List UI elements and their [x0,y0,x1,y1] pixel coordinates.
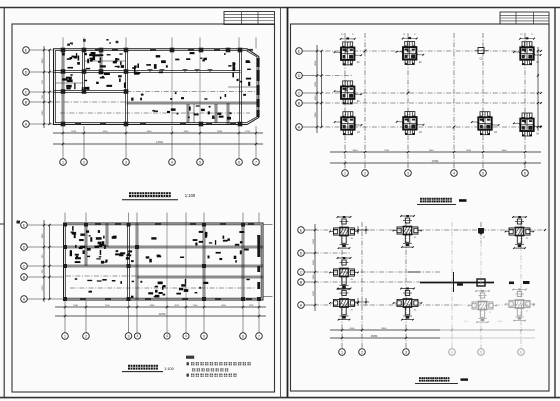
plan2 corridor dash-dot y288 [70,287,255,289]
plan3 column KZ4 at 1-C [343,81,353,87]
svg-text:2: 2 [85,334,87,338]
plan3 column KZ8 at 6-A [522,113,532,119]
plan4 bay dimension row gray part [440,329,535,331]
plan1 room annotation marks lower band [71,74,73,76]
plan2 interior wall C line y266 [64,264,264,266]
plan3 title underline [417,204,456,206]
plan4 small pier at 5-E [478,228,484,235]
plan3 bottom grid bubble 5 [480,170,487,177]
plan3 title scale dash [459,199,467,202]
svg-text:2540: 2540 [466,150,472,152]
svg-text:5: 5 [199,160,201,164]
plan1 annotation marks mid-strip [170,98,172,100]
plan4 vertical axis 4 (gray) [451,222,453,349]
plan3 bay dimension row [330,151,541,153]
svg-text:5: 5 [203,334,205,338]
svg-text:2: 2 [364,171,366,175]
plan3 column KZ3 at 6-E [522,42,532,48]
svg-text:C: C [300,270,303,274]
svg-text:4: 4 [166,334,168,338]
plan4 bottom grid bubble 6 (gray) [518,349,525,356]
plan1 stair marks [98,54,103,56]
plan3 right vertical dimension line [537,47,539,131]
plan1 grid bubble D [23,69,30,76]
plan4 bottom grid bubble 3 [403,349,410,356]
plan4 left vertical dimension line [314,224,316,311]
plan1 number axis stubs above plan [62,38,64,49]
plan3 B axis dash-dot line [316,102,541,104]
plan2 B wall y277 right part [137,275,263,277]
plan1 annotation marks bottom strip rooms [208,111,210,114]
svg-text:3040: 3040 [353,150,359,152]
plan4 axis4 solid segment at B [453,272,455,292]
plan1 bay dimension row [53,132,263,134]
plan2 interior wall axis5 x204 [202,223,204,300]
svg-text:D: D [23,245,26,249]
plan4 B axis strip foundation thick line [420,282,494,284]
left sheet right outer border [280,8,282,398]
plan2 bottom grid bubble 7 [256,333,263,340]
plan3 bottom grid bubble 6 [522,170,529,177]
plan1 bottom grid bubble 3 [123,159,130,166]
plan1 interior wall x101 [99,50,101,72]
plan4 bay dimension row dark part [330,329,440,331]
plan2 room annotation marks upper-left block [97,245,102,247]
plan1 toilet wall x216 [214,104,216,123]
plan2 outline wall [64,223,264,300]
plan3 column KZ5 at 1-A [343,112,353,118]
plan1 B wall right part y103 [127,101,258,103]
plan4 A axis dash-dot line gray part [458,304,534,306]
plan1 outline outer wall [54,49,259,125]
plan2 bottom grid bubble 1/4 [134,333,140,339]
svg-text:2600: 2600 [315,81,317,87]
svg-text:6540: 6540 [350,328,356,330]
plan2 annotation marks mid-left strip [126,257,130,260]
plan4 grid bubble B [298,279,305,286]
plan2 bottom grid bubble 3 [125,333,132,340]
svg-text:6: 6 [524,171,526,175]
plan1 grid bubble A [23,121,30,128]
plan4 vertical axis 2 [361,222,363,349]
svg-text:D: D [298,74,301,78]
right sheet left border (thick) [287,8,289,398]
plan3 grid bubble E [296,48,303,55]
svg-text:C: C [23,264,26,268]
notes line 1 [187,362,189,365]
svg-text:4: 4 [171,160,173,164]
plan2 grid bubble A [21,296,28,303]
plan3 vertical axis dash-dot lines [344,33,346,170]
plan1 toilet wall x194 [193,104,195,123]
plan4 D axis dash-dot line [314,252,350,254]
plan4 E axis dash-dot line [314,229,545,231]
plan3 column KZ7 at 5-A [480,112,490,118]
plan2 title text [128,365,132,370]
plan2 grid bubble D [21,244,28,251]
plan2 interior wall axis2 x86 [84,223,86,266]
plan2 bottom grid bubble 2 [83,333,90,340]
svg-text:5: 5 [482,171,484,175]
plan1 annotation marks top band east [186,58,190,60]
plan4 vertical axis 6 [520,222,522,246]
plan1 axis 4 line inside plan [171,48,173,125]
plan1 B axis dash-dot corridor line [55,101,127,103]
plan3 left vertical dimension line [316,45,318,133]
svg-text:1000: 1000 [313,274,315,280]
svg-text:1800: 1800 [42,58,44,64]
plan1 annotation marks right rooms [240,81,242,83]
plan2 interior wall D line y247 [64,245,264,247]
plan4 A axis dash-dot line dark part [314,304,458,306]
svg-text:D: D [300,251,303,255]
plan1 interior wall axis6 x240.5 [239,50,241,124]
svg-text:7050: 7050 [384,150,390,152]
plan2 window marks top wall [95,223,101,225]
plan1 window marks top wall [95,49,101,51]
plan3 C axis dash-dot line [316,92,541,94]
svg-text:14700: 14700 [159,313,166,316]
plan3 bottom grid bubble 4 [451,170,458,177]
plan1 tiny dim marks above plan [72,42,73,45]
plan4 E axis right end tick [544,229,546,231]
plan2 window marks bottom wall [80,298,86,300]
plan3 column KZ2 at 3-E [405,42,415,48]
sheet outer frame right line [554,8,556,398]
plan2 annotation marks bottom strip [132,281,134,283]
svg-text:3: 3 [125,160,127,164]
svg-text:1: 1 [64,334,66,338]
plan4 title scale dash [461,378,469,380]
svg-text:D: D [25,70,28,74]
plan4 footing at 5-A (gray) [476,290,489,292]
plan4 grid bubble C [298,269,305,276]
plan2 title underline [122,371,163,373]
plan2 bottom grid bubble 2/4 [183,333,189,339]
left sheet inner border [12,24,275,392]
svg-text:2548: 2548 [71,131,77,133]
plan2 bottom grid bubble 1/4b [164,333,170,339]
plan2 A line extension to border [263,296,273,298]
svg-text:C: C [25,90,28,94]
sheet outer frame bottom line [0,397,560,399]
svg-text:8900: 8900 [382,328,388,330]
plan1 C axis dash-dot line [127,91,258,93]
svg-text:3044: 3044 [502,150,508,152]
svg-text:3540: 3540 [315,112,317,118]
plan1 overall dimension row [53,143,263,145]
svg-text:1:100: 1:100 [185,193,196,198]
plan2 bottom grid bubble 5 [201,333,208,340]
svg-text:1: 1 [344,171,346,175]
plan4 footing at 1-A [338,288,351,290]
plan3 grid bubble A [296,124,303,131]
plan2 right edge wall dark blobs [257,235,260,257]
plan2 interior wall x107 [105,223,107,247]
plan2 interior wall axis6 x243 [241,223,243,300]
plan4 C axis dash-dot line [314,271,440,273]
plan3 bottom grid bubble 1 [342,170,349,177]
svg-text:1800: 1800 [42,233,44,239]
plan3 column KZ1 at 1-E [343,42,353,48]
plan1 bottom grid bubble 7 [253,159,260,166]
plan1 title text [129,192,134,197]
svg-text:7: 7 [255,160,257,164]
plan3 grid bubble C [296,90,303,97]
plan2 number axis lines below plan [64,301,66,333]
plan4 tick group at 2-A [357,298,359,306]
plan4 grid bubble D [298,250,305,257]
plan2 bottom grid bubble 6 [240,333,247,340]
plan3 grid bubble D [296,72,303,79]
plan1 annotation marks mid area [134,68,136,73]
sheet outer frame left line [3,8,5,398]
plan3 column KZ6 at 3-A [405,112,415,118]
plan2 axis lines inside plan [166,223,168,300]
svg-text:6: 6 [520,350,522,354]
plan4 footing at 6-A (gray) [513,289,526,291]
plan3 D axis dash-dot line [316,75,352,77]
plan4 vertical axis 3 [405,222,407,349]
plan4 grid bubble A [298,302,305,309]
plan4 overall dimension row [330,337,440,339]
plan1 right edge wall dark blobs [256,58,259,67]
plan2 B axis dash-dot corridor [66,275,137,277]
plan4 title underline [415,382,458,384]
plan1 number axis lines below plan [62,126,64,159]
plan4 title text [419,377,423,381]
svg-text:2100: 2100 [42,110,44,116]
plan3 letter axis leader lines [302,50,316,52]
plan4 B axis dash-dot line [314,281,420,283]
svg-text:2300: 2300 [313,238,315,244]
plan2 grid bubble E [21,222,28,229]
plan4 bottom grid bubble 4 (gray) [449,349,456,356]
plan1 axis 5 line inside plan [199,48,201,125]
plan4 footing at 3-E [401,215,414,217]
plan1 interior wall C line y91.5 [54,90,127,92]
plan1 outline inner wall [55,51,257,123]
plan1 grid bubble E [23,47,30,54]
plan2 annotation marks mid strip [244,249,249,251]
plan1 room wall x228 [226,103,228,124]
svg-text:2100: 2100 [42,285,44,291]
plan1 partition y61 [84,60,126,62]
notes line 2 [192,368,195,371]
plan2 interior wall x137 [135,223,137,300]
plan1 grid bubble C [23,89,30,96]
plan3 tick mark at 3-C [407,92,410,95]
plan4 grid bubble E [298,227,305,234]
plan4 vertical axis 1 [341,222,343,349]
plan3 tick mark at 2-E [364,50,367,53]
plan1 grid bubble B [23,99,30,106]
plan3 tick mark at 4-A [453,126,456,129]
svg-text:15254: 15254 [371,335,378,338]
plan4 footing at 6-E [513,216,526,218]
plan3 bottom grid bubble 2 [362,170,369,177]
plan1 interior wall x83.5 [82,50,84,92]
plan1 bottom grid bubble 2 [81,159,88,166]
left sheet title table [224,12,275,25]
plan1 toilet wall x188 [186,104,188,123]
plan3 grid bubble B [296,100,303,107]
plan3 bottom grid bubble 3 [405,170,412,177]
svg-text:C: C [298,91,301,95]
notes heading [186,356,194,359]
left margin fold mark [0,223,5,225]
plan2 number axis stubs above plan [64,213,66,224]
plan4 B-line marks right [509,282,514,285]
svg-text:3948: 3948 [217,131,223,133]
svg-text:4: 4 [137,334,139,338]
svg-text:4: 4 [185,334,187,338]
plan1 annotation marks D-line tees [149,70,151,73]
plan4 footing at 1-C [338,257,351,259]
plan3 overall dimension row [330,162,541,164]
plan1 columns (filled) [61,48,66,53]
svg-text:6: 6 [238,160,240,164]
plan1 interior wall axis1 x63 [61,50,63,124]
plan2 annotation marks upper-right strip [199,231,204,233]
plan1 left vertical dimension line [43,46,45,128]
plan4 footing at 1-E [338,216,351,218]
plan1 partition y83 left rooms [55,82,84,84]
plan2 stair marks right [155,290,158,293]
plan3 small column at 5-E [478,48,484,54]
svg-text:2: 2 [361,350,363,354]
svg-text:7400: 7400 [429,150,435,152]
right sheet inner border [291,24,550,391]
svg-text:2850: 2850 [184,131,190,133]
svg-text:2: 2 [83,160,85,164]
plan3 right end ticks [540,50,542,52]
plan1 bottom grid bubble 1 [60,159,67,166]
svg-text:2300: 2300 [313,290,315,296]
plan4 bottom grid bubble 2 [359,349,366,356]
svg-text:4: 4 [453,171,455,175]
right sheet title table [500,12,549,24]
svg-text:4200: 4200 [103,131,109,133]
svg-text:5: 5 [480,350,482,354]
plan4 bottom grid bubble 1 [339,349,346,356]
svg-text:1700: 1700 [245,131,251,133]
plan2 grid bubble B [21,274,28,281]
svg-text:3600: 3600 [315,60,317,66]
svg-text:3: 3 [128,334,130,338]
plan2 bay dimension row [55,306,266,308]
plan2 interior wall axis3 x128.5 [127,223,129,300]
plan4 B-line block at 5-B [477,279,485,286]
svg-text:1: 1 [62,160,64,164]
plan2 overall dimension row [55,315,266,317]
svg-text:4: 4 [451,350,453,354]
plan4 C axis solid end segment [408,271,420,273]
plan2 bottom grid bubble 1 [62,333,69,340]
svg-text:6: 6 [242,334,244,338]
svg-text:3: 3 [407,171,409,175]
plan2 left vertical dimension line [43,220,45,302]
svg-text:7: 7 [258,334,260,338]
plan1 beam y87 right rooms [228,86,257,88]
svg-text:1: 1 [341,350,343,354]
plan4 footing at 3-A [401,288,414,290]
plan1 bottom grid bubble 6 [236,159,243,166]
svg-text:14700: 14700 [156,141,163,144]
plan3 title text [420,198,424,203]
plan1 room annotation marks upper band [113,61,117,64]
plan2 E line extension to border [263,224,273,226]
plan4 A axis right end tick [533,304,535,306]
plan1 bottom grid bubble 5 [197,159,204,166]
plan1 window marks bottom wall [75,123,81,125]
plan2 letter axis leader lines [27,224,64,226]
sheet outer frame top line [0,7,560,9]
svg-text:3: 3 [405,350,407,354]
plan1 bottom grid bubble 4 [169,159,176,166]
notes line 3 [187,374,189,377]
plan2 grid bubble C [21,263,28,270]
svg-text:1000: 1000 [315,95,317,101]
plan4 tick group at 2-E [357,226,359,234]
svg-text:1:100: 1:100 [164,367,174,371]
plan1 interior wall axis3 x126.5 [125,50,127,124]
plan3 A axis dash-dot line [316,126,541,128]
plan2 columns (filled) [63,223,67,227]
plan1 title underline [122,199,178,201]
svg-text:1900: 1900 [313,259,315,265]
plan1 interior wall D line y71.5 [54,70,241,72]
plan4 letter axis leader lines [304,229,314,231]
plan3 E axis dash-dot line [316,50,541,52]
svg-text:17294: 17294 [432,160,439,163]
plan3 second vertical dimension line [321,51,323,127]
plan1 corridor dash-dot line y113 [60,112,250,114]
plan4 vertical axis 5 [480,222,482,242]
plan4 bottom grid bubble 5 (gray) [478,349,485,356]
svg-text:4650: 4650 [147,131,153,133]
plan1 letter axis leader lines [29,49,54,51]
